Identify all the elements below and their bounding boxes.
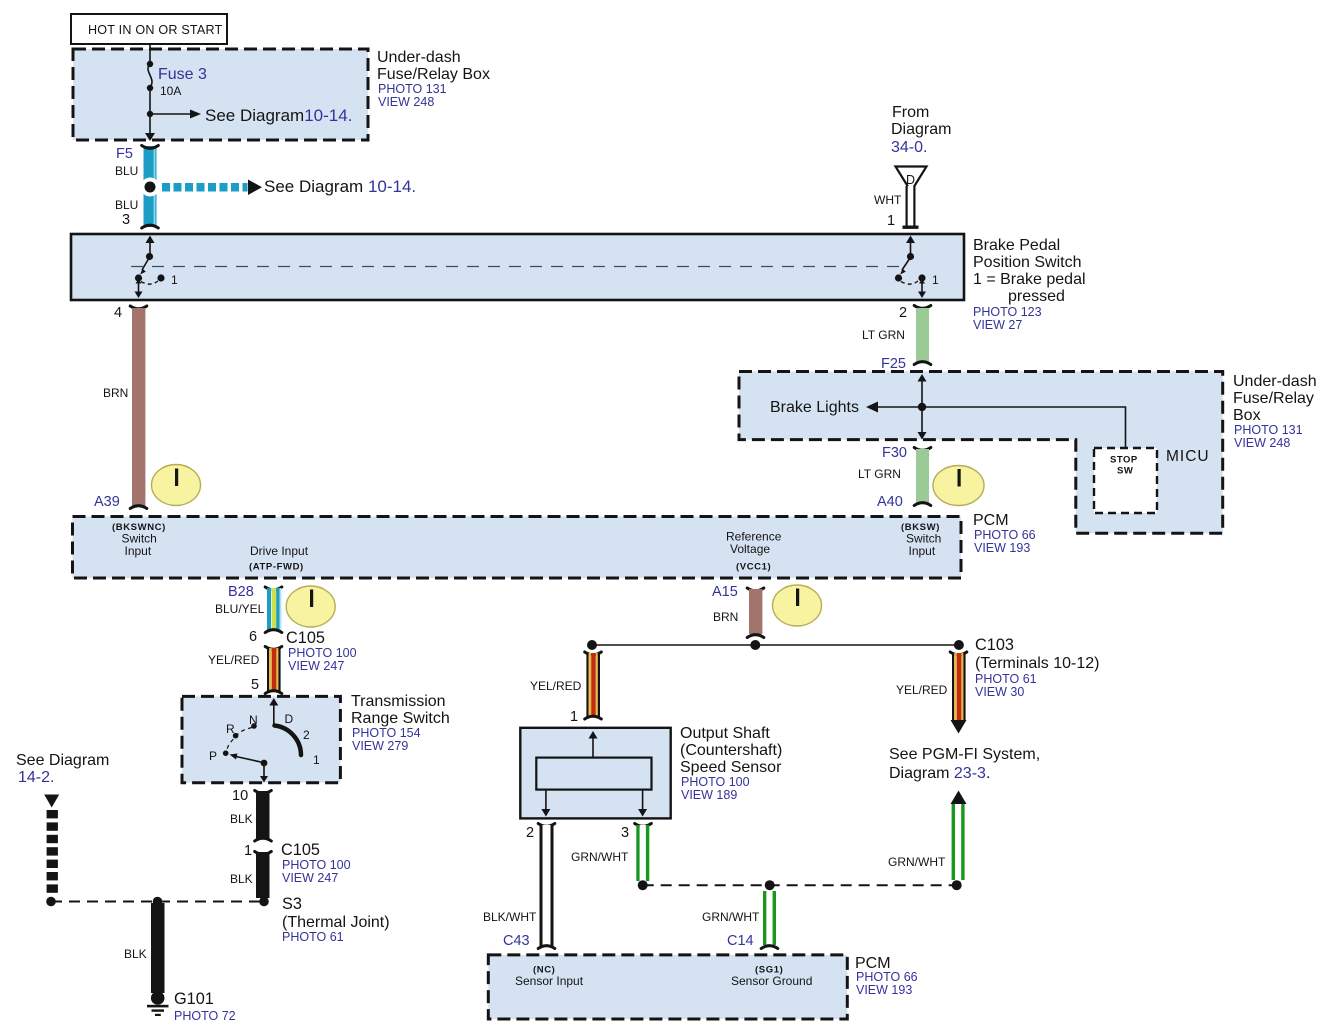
wire BRN pin 4 to A39 (130, 306, 147, 509)
svg-text:See Diagram10-14.: See Diagram10-14. (205, 106, 352, 125)
svg-text:C105: C105 (286, 629, 325, 647)
svg-text:2: 2 (303, 728, 310, 742)
node wire VCC1 horizontal (587, 640, 964, 650)
svg-text:C103: C103 (975, 636, 1014, 654)
svg-text:F5: F5 (116, 146, 133, 162)
brake pedal position switch label (973, 237, 1086, 332)
svg-text:10: 10 (232, 788, 248, 804)
svg-text:VIEW 193: VIEW 193 (974, 541, 1030, 555)
svg-text:Drive Input: Drive Input (250, 544, 309, 558)
dashed link line between switch halves (131, 266, 901, 268)
PCM2 label (855, 955, 918, 997)
svg-text:Fuse 3: Fuse 3 (158, 66, 207, 83)
svg-text:Brake Pedal: Brake Pedal (973, 237, 1060, 254)
pin 6 / C105 labels (249, 629, 357, 673)
svg-text:STOP: STOP (1110, 455, 1138, 466)
STOP SW box (1094, 448, 1157, 513)
under-dash box 1 label (377, 49, 490, 109)
svg-text:pressed: pressed (1008, 288, 1065, 305)
svg-text:GRN/WHT: GRN/WHT (702, 910, 760, 924)
see PGM-FI system label (889, 746, 1040, 782)
svg-text:Fuse/Relay: Fuse/Relay (1233, 390, 1314, 407)
svg-text:HOT IN ON OR START: HOT IN ON OR START (88, 23, 223, 37)
svg-text:BRN: BRN (103, 386, 128, 400)
svg-text:PHOTO 131: PHOTO 131 (1234, 423, 1303, 437)
svg-text:VIEW 279: VIEW 279 (352, 739, 408, 753)
svg-text:Input: Input (909, 544, 936, 558)
wire GRN/WHT pin 3 to node (635, 824, 652, 882)
svg-text:PHOTO 66: PHOTO 66 (856, 970, 918, 984)
svg-text:(VCC1): (VCC1) (736, 562, 771, 573)
svg-text:G101: G101 (174, 990, 214, 1008)
svg-text:BLU: BLU (115, 164, 138, 178)
svg-text:VIEW 248: VIEW 248 (1234, 436, 1290, 450)
svg-text:See PGM-FI System,: See PGM-FI System, (889, 746, 1040, 763)
svg-text:WHT: WHT (874, 193, 902, 207)
wire BRN A15 to node (747, 588, 764, 638)
svg-text:BLK/WHT: BLK/WHT (483, 910, 537, 924)
svg-text:1: 1 (932, 273, 939, 287)
svg-text:MICU: MICU (1166, 448, 1210, 465)
svg-text:VIEW 27: VIEW 27 (973, 318, 1022, 332)
svg-text:BLK: BLK (230, 812, 253, 826)
svg-text:Range Switch: Range Switch (351, 710, 450, 727)
svg-text:Position Switch: Position Switch (973, 254, 1082, 271)
output shaft speed sensor label (680, 725, 782, 802)
svg-text:VIEW 30: VIEW 30 (975, 685, 1024, 699)
node S3 dashed bus (46, 897, 269, 907)
TRS position dots (223, 723, 268, 766)
svg-text:1: 1 (570, 709, 578, 725)
svg-text:Sensor Input: Sensor Input (515, 974, 584, 988)
svg-text:See Diagram 10-14.: See Diagram 10-14. (264, 177, 416, 196)
sensor inner arrow up (589, 731, 598, 758)
wire BLU F5 to pin 3 (142, 146, 159, 229)
wire BLU/YEL B28 to 6 (265, 587, 282, 633)
svg-text:Sensor Ground: Sensor Ground (731, 974, 812, 988)
svg-text:GRN/WHT: GRN/WHT (888, 855, 946, 869)
svg-text:From: From (892, 104, 929, 121)
svg-text:PHOTO 61: PHOTO 61 (282, 930, 344, 944)
svg-text:PHOTO 100: PHOTO 100 (681, 775, 750, 789)
svg-text:A40: A40 (877, 494, 903, 510)
sensor arrows down to pins 2,3 (541, 790, 647, 817)
svg-text:PHOTO 154: PHOTO 154 (352, 726, 421, 740)
svg-text:C43: C43 (503, 933, 530, 949)
svg-text:1: 1 (313, 753, 320, 767)
svg-text:BLU: BLU (115, 198, 138, 212)
connector triangle D (896, 167, 927, 192)
svg-text:PCM: PCM (973, 512, 1009, 529)
svg-text:Speed Sensor: Speed Sensor (680, 759, 782, 776)
svg-text:(Countershaft): (Countershaft) (680, 742, 782, 759)
svg-text:Brake Lights: Brake Lights (770, 399, 859, 416)
under-dash fuse/relay box 1 (73, 49, 368, 140)
left switch contacts (135, 236, 179, 299)
svg-text:VIEW 189: VIEW 189 (681, 788, 737, 802)
PCM2 pin name SG1 sensor ground (731, 965, 812, 989)
PCM1 pin name drive input (249, 544, 309, 573)
svg-text:6: 6 (249, 629, 257, 645)
svg-text:LT GRN: LT GRN (858, 467, 901, 481)
wire LT GRN pin 2 to F25 (914, 306, 931, 365)
svg-text:VIEW 193: VIEW 193 (856, 983, 912, 997)
svg-text:1 = Brake pedal: 1 = Brake pedal (973, 271, 1086, 288)
note marker ellipse 2 (933, 466, 984, 506)
svg-text:(Terminals 10-12): (Terminals 10-12) (975, 655, 1099, 672)
svg-text:1: 1 (244, 843, 252, 859)
svg-text:5: 5 (251, 677, 259, 693)
svg-text:Transmission: Transmission (351, 693, 446, 710)
svg-text:2: 2 (526, 825, 534, 841)
svg-text:PHOTO 72: PHOTO 72 (174, 1009, 236, 1023)
wire LT GRN F30 to A40 (914, 448, 931, 506)
TRS selector arc D range (275, 726, 302, 756)
svg-text:Output Shaft: Output Shaft (680, 725, 770, 742)
svg-text:Fuse/Relay Box: Fuse/Relay Box (377, 66, 490, 83)
svg-text:LT GRN: LT GRN (862, 328, 905, 342)
wire GRN/WHT up arrow to PGM-FI (951, 791, 967, 881)
WHT / pin 1 labels (874, 193, 902, 229)
wire GRN/WHT node to C14 (761, 891, 778, 949)
PCM box 1 (73, 517, 962, 579)
svg-text:PHOTO 66: PHOTO 66 (974, 528, 1036, 542)
wire from HOT box into fuse box (149, 44, 151, 63)
svg-text:Box: Box (1233, 407, 1261, 424)
under-dash fuse/relay box 2 (L-shape) (739, 372, 1223, 534)
svg-text:BLK: BLK (230, 872, 253, 886)
svg-text:PHOTO 123: PHOTO 123 (973, 305, 1042, 319)
TRS dashed arc through N R P (227, 728, 253, 752)
svg-text:D: D (285, 712, 294, 726)
TRS position letters (209, 712, 320, 767)
svg-text:PHOTO 61: PHOTO 61 (975, 672, 1037, 686)
pin 2 and 3 labels (526, 825, 629, 841)
wire BLK/WHT pin 2 to C43 (538, 824, 555, 949)
dashed bus SG1 (638, 880, 962, 890)
svg-text:YEL/RED: YEL/RED (896, 683, 948, 697)
svg-text:SW: SW (1117, 466, 1133, 477)
svg-text:Diagram 23-3.: Diagram 23-3. (889, 765, 990, 782)
transmission range switch box (182, 696, 340, 782)
see diagram 14-2 label (16, 752, 109, 786)
svg-text:Under-dash: Under-dash (1233, 373, 1317, 390)
C103 label (975, 636, 1099, 699)
svg-text:YEL/RED: YEL/RED (530, 679, 582, 693)
svg-text:PHOTO 100: PHOTO 100 (288, 646, 357, 660)
svg-text:A39: A39 (94, 494, 120, 510)
BLU labels (115, 164, 138, 212)
svg-text:3: 3 (621, 825, 629, 841)
from diagram 34-0 label (891, 104, 951, 156)
svg-text:GRN/WHT: GRN/WHT (571, 850, 629, 864)
note marker ellipse 1 (152, 465, 201, 506)
TRS wiper to pin 10 (260, 765, 268, 783)
vertical arrow F25 to F30 inside box (918, 374, 927, 440)
svg-text:F25: F25 (881, 356, 906, 372)
note marker ellipse 3 (286, 586, 335, 627)
wire brake lights to stop sw (866, 402, 1126, 449)
fuse 3 value labels (158, 66, 207, 98)
svg-text:Input: Input (125, 544, 152, 558)
svg-text:4: 4 (114, 305, 122, 321)
svg-text:Voltage: Voltage (730, 542, 770, 556)
TRS selector: up arrow to pin 5 (269, 698, 278, 725)
right switch contacts (895, 236, 939, 299)
svg-text:C105: C105 (281, 841, 320, 859)
wire YEL/RED 6 to 5 (265, 647, 282, 694)
wire WHT to pin 1 (903, 186, 919, 229)
svg-text:1: 1 (887, 213, 895, 229)
junction node F25/F30 line (918, 403, 926, 411)
under-dash box 2 label (1233, 373, 1317, 450)
PCM1 pin name BKSW (901, 522, 941, 558)
dashed heavy link wire (47, 810, 58, 893)
pin 1 / C105 labels (244, 841, 351, 885)
PCM1 pin name reference voltage (726, 530, 782, 573)
brake pedal position switch box (71, 234, 964, 300)
HOT IN ON OR START box (71, 14, 227, 44)
output shaft speed sensor box (520, 728, 670, 819)
wire BLK S3 to G101 (151, 903, 165, 993)
svg-text:VIEW 247: VIEW 247 (282, 871, 338, 885)
svg-text:P: P (209, 749, 217, 763)
arrow to diagram 14-2 (44, 795, 59, 808)
fuse F3 symbol (147, 61, 153, 91)
svg-text:10A: 10A (160, 84, 181, 98)
svg-text:PHOTO 131: PHOTO 131 (378, 82, 447, 96)
svg-text:BLK: BLK (124, 947, 147, 961)
PCM2 pin name NC sensor input (515, 965, 584, 989)
TRS label (351, 693, 450, 753)
dashed cyan arrow to See Diagram 10-14 (162, 180, 262, 196)
svg-text:C14: C14 (727, 933, 754, 949)
svg-text:VIEW 247: VIEW 247 (288, 659, 344, 673)
PCM box 2 (488, 955, 847, 1019)
G101 label (174, 990, 236, 1023)
wire YEL/RED C103 down arrow (950, 652, 967, 734)
junction node on BLU wire (141, 178, 160, 197)
ground G101 (147, 991, 169, 1016)
svg-text:2: 2 (899, 305, 907, 321)
S3 thermal joint label (282, 895, 390, 944)
svg-text:Diagram: Diagram (891, 121, 951, 138)
svg-text:Under-dash: Under-dash (377, 49, 461, 66)
svg-text:14-2.: 14-2. (18, 769, 54, 786)
svg-text:3: 3 (122, 212, 130, 228)
TRS wiper blade (230, 754, 264, 763)
PCM1 pin name BKSWNC (112, 522, 166, 558)
note marker ellipse 4 (773, 585, 822, 626)
wire BLK C105 to S3 (255, 852, 272, 899)
svg-text:BRN: BRN (713, 610, 738, 624)
PCM1 label (973, 512, 1036, 555)
svg-text:(Thermal Joint): (Thermal Joint) (282, 914, 390, 931)
svg-text:PHOTO 100: PHOTO 100 (282, 858, 351, 872)
wire BLK pin 10 to C105 (255, 791, 272, 842)
svg-text:1: 1 (171, 273, 178, 287)
svg-text:See Diagram: See Diagram (16, 752, 109, 769)
svg-text:F30: F30 (882, 445, 907, 461)
svg-text:S3: S3 (282, 895, 302, 913)
wire fuse to F5 with branch (145, 88, 201, 141)
svg-text:D: D (906, 173, 915, 187)
svg-text:B28: B28 (228, 584, 254, 600)
svg-text:34-0.: 34-0. (891, 139, 927, 156)
svg-text:VIEW 248: VIEW 248 (378, 95, 434, 109)
wire YEL/RED node to sensor pin 1 (585, 652, 602, 719)
svg-text:(ATP-FWD): (ATP-FWD) (249, 562, 304, 573)
svg-text:YEL/RED: YEL/RED (208, 653, 260, 667)
svg-text:BLU/YEL: BLU/YEL (215, 602, 265, 616)
pin labels 4 and 2 (114, 305, 907, 321)
svg-text:A15: A15 (712, 584, 738, 600)
